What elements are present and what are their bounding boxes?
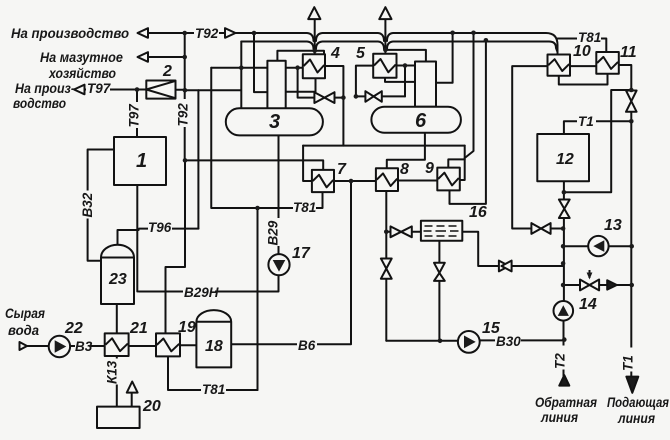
svg-text:8: 8: [400, 161, 409, 178]
valve under tank 16: [434, 263, 445, 273]
wire: exch5 right dot down to valve level: [404, 66, 406, 97]
junction dot (564.3,339.6): [562, 337, 567, 342]
wire: drum 6 drain to exch 8 top: [387, 133, 425, 169]
valve boiler 6 side: [365, 91, 373, 102]
wire: control valve line to T1: [563, 284, 632, 286]
svg-text:На мазутное: На мазутное: [40, 49, 123, 65]
junction dot (631.3,121.3): [629, 119, 634, 124]
wire: tank16 right loop to T2 stack: [462, 232, 499, 266]
svg-text:К13: К13: [105, 360, 120, 384]
wire: exch21 to exch19: [129, 345, 156, 347]
svg-text:18: 18: [205, 338, 223, 355]
svg-text:Т2: Т2: [553, 353, 568, 369]
wire: T1 supply line down: [630, 121, 632, 376]
wire: fuel-oil branch y=57: [148, 56, 185, 58]
junction dot (184.7,33): [182, 31, 187, 36]
heat exchanger 4: [303, 54, 325, 78]
svg-text:В6: В6: [298, 338, 316, 353]
svg-text:20: 20: [142, 398, 161, 415]
junction dot (297.6,67.7): [295, 65, 300, 70]
check valve: filled right triangle: [607, 280, 617, 289]
wire: valve to pump15 header: [385, 279, 387, 341]
wire: T1 line from tank 12: [564, 121, 631, 134]
elevator 2: [146, 81, 175, 99]
svg-text:7: 7: [337, 161, 347, 178]
label group: [266, 218, 281, 246]
wire: valve6 right to riser: [382, 95, 405, 97]
label group: [553, 346, 568, 370]
svg-text:15: 15: [482, 320, 501, 337]
svg-text:23: 23: [108, 271, 127, 288]
junction dot (351,181): [349, 179, 354, 184]
wire: T92 riser continuation down to exch 19 top: [166, 160, 186, 333]
wire: feed drop from T92 dot into column 3 left: [254, 33, 267, 92]
svg-text:2: 2: [162, 63, 172, 80]
label group: [577, 30, 601, 45]
junction dot (473.5,32.8): [471, 31, 476, 36]
label group: [201, 382, 226, 397]
wire: T92 vertical riser x=184.7: [184, 33, 186, 160]
svg-text:водство: водство: [13, 95, 66, 111]
wire: y=67.7 left segment to column 3: [211, 67, 267, 69]
valve tank16 right line: [499, 261, 509, 272]
wire: exch 11 right to valve: [619, 65, 632, 91]
junction dot (563.9,192.3): [562, 190, 567, 195]
wire: exch4 drain dot down to valve: [298, 68, 315, 98]
svg-text:хозяйство: хозяйство: [48, 65, 116, 81]
svg-text:19: 19: [178, 319, 196, 336]
wire: vent 1 stack: [314, 20, 316, 55]
wire: pump22 to exch 21 (B3): [70, 345, 105, 347]
wire: exch4 bottom loop into column 3: [286, 78, 315, 92]
junction dot (241.3,67.7): [239, 65, 244, 70]
label group: [183, 285, 219, 300]
wire: exch8-exch9 link: [398, 180, 437, 182]
svg-text:22: 22: [64, 320, 83, 337]
wire: branch into exch 9 top: [448, 159, 464, 167]
junction dot (385.4,49.9): [383, 48, 388, 53]
wire: column 3 right to exch 4 left y=67.7: [286, 67, 303, 69]
wire: T97 drop to block 1: [136, 90, 138, 138]
svg-text:В29Н: В29Н: [184, 285, 219, 300]
wire: exch 5 right to column 6 left: [397, 65, 416, 67]
wire: valve to tank 16: [412, 231, 421, 233]
junction dot (184.9,90.2): [183, 88, 188, 93]
heat exchanger 8: [376, 168, 398, 191]
svg-text:10: 10: [573, 43, 591, 60]
heat exchanger 7: [312, 170, 334, 192]
wire: elevator 2 outlet to T92 riser: [176, 89, 185, 91]
valve under tank 12: [559, 200, 570, 209]
label group: [194, 26, 219, 41]
block 1 (water treatment): [114, 137, 166, 185]
svg-text:вода: вода: [8, 322, 39, 338]
svg-text:На производство: На производство: [11, 25, 129, 41]
wire: valve to pump15 header: [438, 281, 440, 341]
heat exchanger 5: [373, 54, 396, 78]
svg-text:Т81: Т81: [202, 382, 225, 397]
svg-text:В29: В29: [266, 220, 281, 245]
valve right of exch 11: [626, 91, 637, 102]
arrow: supply line (filled down): [626, 377, 638, 393]
arrow: block20 vent (open up): [127, 382, 138, 393]
junction dot (254,33): [252, 31, 257, 36]
junction dot (452.6,32.8): [450, 31, 455, 36]
svg-text:6: 6: [415, 110, 427, 132]
pump 14: [554, 301, 574, 321]
junction dot (485.9,40.3): [484, 38, 489, 43]
svg-text:21: 21: [129, 320, 148, 337]
arrow: to production lower (open left): [74, 85, 85, 95]
label group: [127, 102, 142, 128]
heat exchanger 19: [156, 333, 180, 356]
label group: [176, 99, 191, 127]
junction dot (185,160.4): [183, 158, 188, 163]
svg-text:13: 13: [604, 217, 622, 234]
wire: exch10-11 mid link: [570, 65, 596, 67]
svg-text:Т97: Т97: [127, 103, 142, 128]
wire: pump 13 suction: [563, 245, 588, 247]
svg-text:Обратная: Обратная: [535, 394, 597, 410]
wire: riser x=258 from T81 mid line down to T81 bottom: [257, 208, 259, 390]
arrow: T92 right (open right): [225, 28, 236, 38]
wire: valve 11 to T1 dot: [630, 112, 632, 122]
junction dot (631.3,90): [629, 88, 634, 93]
junction dot (563.1,285): [561, 283, 566, 288]
label group: [293, 200, 316, 215]
heat exchanger 21: [105, 333, 129, 356]
junction dot (314.7,50.8): [312, 49, 317, 54]
wire: T81 branch to exch 11 top: [558, 39, 607, 53]
deaerator column 3: [267, 61, 285, 109]
label group: [297, 338, 317, 353]
svg-text:Т92: Т92: [176, 103, 191, 127]
wire: exch7-exch8 link: [334, 180, 376, 182]
junction dot (405,65.5): [403, 63, 408, 68]
wire: T97 line to elevator 2: [85, 89, 147, 91]
label group: [148, 220, 172, 235]
svg-text:12: 12: [556, 151, 574, 168]
svg-text:Сырая: Сырая: [5, 305, 45, 321]
pump 15: [458, 331, 480, 353]
wire: vent2 dot to column 6 top: [385, 50, 426, 62]
label group: [80, 191, 95, 219]
wire: pump14 bottom to return arrow: [563, 320, 565, 376]
svg-text:3: 3: [269, 111, 280, 133]
deaerator drum 6: [371, 107, 461, 133]
wire: vessel 23 top to block1 drop line: [118, 230, 139, 246]
wire: T96 horizontal line: [139, 228, 198, 230]
wire: pump 13 discharge: [609, 245, 632, 247]
wire: line B left corner down to drum 3 top: [240, 42, 242, 109]
svg-text:11: 11: [620, 44, 637, 61]
junction dot (343.4,97.6): [341, 95, 346, 100]
wire: tank16 inlet line: [386, 231, 390, 233]
svg-text:9: 9: [425, 160, 434, 177]
deaerator column 6: [415, 62, 436, 107]
wire: tank16 bottom to valve: [438, 241, 440, 263]
heat exchanger 11: [596, 52, 619, 74]
label group: [577, 114, 596, 129]
junction dot (631.7,285): [629, 283, 634, 288]
wire: line A drop x=452.6 into column 6 right: [436, 33, 453, 83]
wire: vent 2 stack: [384, 20, 386, 54]
svg-text:17: 17: [292, 245, 311, 262]
wire: exch5 bottom loop to column 6: [385, 78, 415, 82]
wire: exch9 bottom loop up to line B: [450, 40, 486, 204]
svg-text:линия: линия: [540, 409, 578, 425]
wire: block1 bottom through T96 to B29N: [136, 185, 138, 292]
svg-text:В32: В32: [80, 192, 95, 217]
svg-text:5: 5: [356, 45, 366, 62]
wire: valve to T2 stack top: [563, 218, 565, 301]
svg-text:Т1: Т1: [578, 114, 594, 129]
wire: column 3 steam to vent and exch 4 top: [277, 51, 324, 61]
label group: [86, 81, 112, 96]
pump 22: [49, 336, 70, 357]
wire: exch10 left line down to pump13 valve: [512, 66, 547, 228]
wire: vertical x=198.4 from y=90.2 down to T96: [197, 90, 199, 228]
wire: block 20 vent stub: [131, 393, 133, 407]
arrow: to fuel oil facility (open left): [138, 52, 149, 62]
svg-text:Т92: Т92: [195, 26, 219, 41]
wire: header right corner down to exch 9 right: [460, 146, 465, 180]
wire: K13 exch21 bottom to block 20: [116, 356, 118, 407]
svg-text:Подающая: Подающая: [607, 394, 669, 410]
svg-text:В3: В3: [75, 339, 93, 354]
junction dot (257.5,208): [255, 206, 260, 211]
wire: y=160.4 long line into exch 7 top: [185, 160, 323, 170]
wire: exch10-11 bottom U: [559, 74, 608, 85]
wire: T81 condensate path exch7 bottom to riser x=211.25: [211, 68, 322, 208]
vessel 23: [101, 245, 134, 304]
wire: B6 riser from 7-8 link down to vessel 18: [231, 181, 351, 344]
wire: top header T92 line A: [148, 33, 558, 55]
deaerator drum 3: [226, 108, 323, 135]
arrow: to production (open left): [138, 28, 149, 38]
wire: exch8 bottom to valve: [385, 191, 387, 259]
junction dot (386.3,231.8): [384, 230, 389, 235]
wire: valve13 to T2 stack: [551, 228, 564, 230]
svg-text:Т96: Т96: [148, 220, 172, 235]
vessel 18: [196, 310, 231, 367]
control valve 14 line: [580, 280, 590, 291]
svg-text:1: 1: [136, 150, 147, 172]
wire: second header line B: [241, 42, 557, 53]
svg-text:16: 16: [469, 204, 487, 221]
component numbers: [64, 43, 637, 415]
wire: y=90.2 line from T92 riser to drum 3 feed: [185, 89, 241, 91]
heat exchanger 10: [548, 55, 571, 76]
wire: vessel 23 bottom to exch 21: [116, 304, 118, 333]
tank 16 (water seal): [421, 221, 462, 241]
block 20 (drain tank): [97, 407, 140, 428]
wire: raw water to pump 22: [26, 345, 49, 347]
wire: bypass tank12 bottom to valve top: [564, 90, 631, 192]
wire: B32 line block1 to vessel 23: [88, 150, 114, 261]
wire: header left corner down into exch 7 left: [303, 146, 312, 181]
wire: T81 bottom loop exch19 to riser: [168, 356, 258, 390]
junction dot (440,340.8): [438, 339, 443, 344]
svg-text:14: 14: [579, 296, 597, 313]
junction dot (563.1,228.5): [561, 226, 566, 231]
wire: pump 15 suction header: [386, 340, 458, 342]
arrow: raw water inlet (small open): [20, 342, 28, 350]
wire: B29N header: [139, 276, 279, 292]
junction dot (137,89.5): [135, 87, 140, 92]
junction dot (184.7,57): [182, 55, 187, 60]
wire: line A drop x=473.5 merge into exch 9 feed: [465, 33, 474, 158]
label group: [105, 359, 120, 385]
arrow: return line (filled up): [559, 375, 569, 385]
svg-text:линия: линия: [617, 410, 655, 426]
svg-text:На произ-: На произ-: [15, 80, 75, 96]
svg-text:Т1: Т1: [621, 355, 636, 371]
wire: valve right to T2 stack: [512, 265, 563, 267]
wire: tank 12 bottom to valve: [563, 181, 565, 199]
wire: pump 17 riser from drum 3: [278, 135, 280, 254]
pump 17: [268, 254, 289, 275]
svg-text:Т97: Т97: [87, 81, 112, 96]
wire: exch5 left down to valve 6: [356, 66, 373, 97]
junction dot (563.1,246.3): [561, 244, 566, 249]
wire: valve right to junction: [335, 97, 344, 99]
junction dot (355.9,96.4): [354, 94, 359, 99]
valve after exch 4: [314, 92, 324, 103]
valve tank16 inlet: [391, 226, 402, 237]
svg-text:Т81: Т81: [293, 200, 316, 215]
wire: exch4 right edge loop to valve junction: [325, 66, 343, 146]
tank 12: [537, 134, 589, 181]
arrow: vent 1 (open up): [308, 7, 320, 19]
svg-text:4: 4: [330, 45, 340, 62]
junction dot (631.7,246.3): [629, 244, 634, 249]
label group: [621, 348, 636, 372]
heat exchanger 9: [437, 168, 460, 191]
label group: [75, 339, 93, 354]
arrow: vent 2 (open up): [379, 7, 391, 19]
pump 13: [588, 236, 608, 256]
junction dot (563.1,263.4): [561, 261, 566, 266]
valve under exch 8: [381, 259, 392, 269]
wire: header y=145.6: [303, 145, 465, 147]
wire: B30 discharge of pump 15: [480, 339, 564, 341]
label group: [495, 334, 521, 349]
wire: exch19 to vessel 18: [180, 344, 196, 346]
valve pump13 suction: [531, 223, 541, 234]
